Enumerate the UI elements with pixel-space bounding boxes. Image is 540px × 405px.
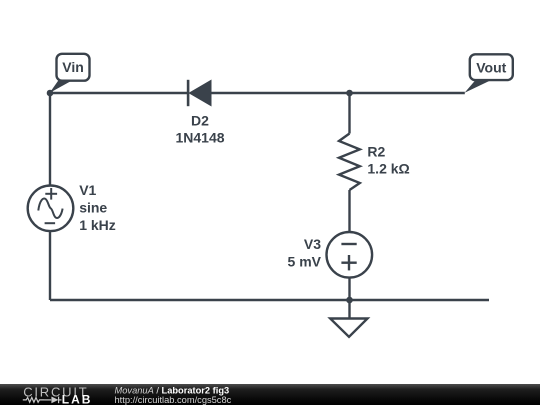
wire top-left (Vin node to diode cathode) [49, 92, 188, 94]
wire bottom rail [50, 299, 489, 301]
diode D2 [188, 80, 211, 106]
CircuitLab logo [23, 384, 93, 405]
svg-text:1N4148: 1N4148 [175, 129, 224, 145]
source V3 [327, 232, 373, 278]
svg-text:1.2 kΩ: 1.2 kΩ [367, 160, 409, 176]
svg-text:5 mV: 5 mV [288, 253, 322, 269]
svg-text:LAB: LAB [62, 393, 93, 405]
ground [330, 319, 367, 337]
wire V3 bottom lead [348, 277, 350, 300]
svg-text:Vout: Vout [476, 60, 506, 76]
wire R2 to V3 [348, 190, 350, 233]
svg-text:D2: D2 [191, 113, 209, 129]
svg-text:MovanuA / Laborator2 fig3: MovanuA / Laborator2 fig3 [115, 385, 230, 395]
svg-text:V3: V3 [304, 236, 321, 252]
svg-text:http://circuitlab.com/cgs5c8c: http://circuitlab.com/cgs5c8c [115, 395, 232, 405]
svg-text:sine: sine [79, 200, 107, 216]
svg-text:V1: V1 [79, 182, 96, 198]
svg-text:1 kHz: 1 kHz [79, 217, 116, 233]
svg-text:Vin: Vin [62, 59, 84, 75]
wire top-right (diode anode to Vout point, node at R2 top) [210, 92, 465, 94]
source V1 [28, 186, 74, 232]
resistor R2 [339, 134, 360, 191]
node Vin junction [47, 90, 54, 97]
node R2/diode junction [346, 90, 353, 97]
wire ground lead [348, 300, 350, 319]
wire left vertical lower (V1 bottom to bottom rail) [49, 231, 51, 300]
node ground junction [346, 297, 353, 304]
node Vout flag [465, 54, 513, 93]
node Vin flag [50, 54, 90, 93]
wire left vertical upper (Vin node to V1 top) [49, 92, 51, 186]
svg-text:R2: R2 [367, 144, 385, 160]
footer bar [0, 384, 540, 405]
wire R2 top lead [348, 92, 350, 134]
